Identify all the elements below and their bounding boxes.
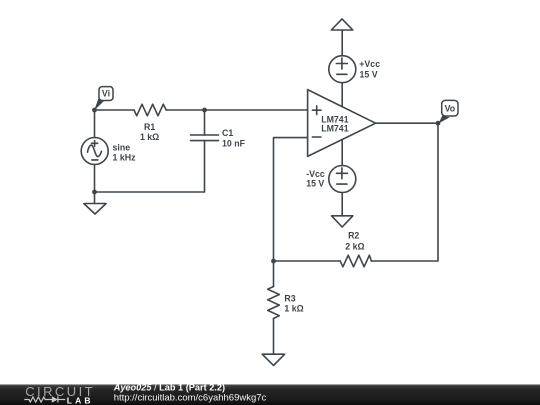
wire feedback node to R3	[273, 261, 275, 287]
svg-text:15 V: 15 V	[306, 179, 324, 189]
V3 minus sign	[337, 183, 347, 185]
svg-text:1 kHz: 1 kHz	[113, 153, 137, 163]
wire Vi node down to V1	[94, 110, 96, 138]
svg-text:http://circuitlab.com/c6yahh69: http://circuitlab.com/c6yahh69wkg7c	[114, 393, 267, 404]
capacitor C1 top lead	[204, 110, 206, 135]
footer bar	[0, 384, 540, 405]
VCC power symbol triangle	[331, 19, 353, 30]
wire R2 left to feedback node	[274, 260, 341, 262]
svg-text:R2: R2	[348, 231, 359, 241]
op-amp plus input symbol	[312, 106, 321, 115]
wire op-amp output to Vo corner	[376, 122, 438, 124]
junction node at V1 bottom / ground	[92, 190, 97, 195]
ground symbol below R3	[262, 354, 285, 365]
svg-text:+Vcc: +Vcc	[359, 59, 380, 69]
svg-text:1 kΩ: 1 kΩ	[284, 303, 303, 313]
wire Vi node to R1	[95, 109, 135, 111]
V3 plus sign	[336, 168, 347, 179]
voltage source V3 -Vcc body	[329, 166, 356, 193]
node flag pointer Vi	[94, 98, 104, 111]
op-amp minus input symbol	[312, 136, 321, 138]
node flag box Vo	[442, 100, 458, 116]
node flag pointer Vo	[439, 116, 450, 124]
svg-text:Vo: Vo	[445, 104, 456, 114]
ground symbol below V1	[84, 204, 106, 215]
wire op-amp inverting input to feedback node	[274, 138, 308, 261]
V2 plus sign	[336, 58, 347, 69]
svg-text:10 nF: 10 nF	[222, 139, 246, 149]
resistor R2	[340, 255, 371, 267]
wire bottom net to C1 bottom	[95, 141, 205, 192]
V2 minus sign	[337, 73, 347, 75]
svg-text:Ayeo025 / Lab 1 (Part 2.2): Ayeo025 / Lab 1 (Part 2.2)	[113, 382, 225, 392]
sine wave symbol inside V1	[88, 145, 102, 156]
svg-text:sine: sine	[113, 143, 131, 153]
wire Vo corner down to R2 right	[371, 123, 438, 261]
junction node at Vi	[92, 108, 97, 113]
svg-text:LM741: LM741	[321, 124, 348, 134]
svg-text:Vi: Vi	[102, 89, 110, 99]
footer logo diode	[52, 396, 58, 402]
capacitor C1 plates	[191, 135, 219, 141]
V1 minus sign	[92, 159, 98, 161]
junction node at Vo	[436, 121, 441, 126]
voltage source V2 +Vcc body	[329, 56, 356, 83]
svg-text:R3: R3	[284, 293, 295, 303]
wire V2 top to VCC symbol	[341, 30, 343, 56]
svg-text:R1: R1	[144, 122, 155, 132]
wire V1 bottom to ground node	[94, 165, 96, 204]
footer logo resistor-diode squiggle	[24, 396, 65, 402]
op-amp U1 triangle	[308, 90, 376, 157]
wire op-amp bottom power pin to V3	[341, 139, 343, 165]
VEE power symbol triangle	[332, 216, 353, 227]
node flag box Vi	[99, 87, 113, 101]
wire R3 bottom to ground	[273, 319, 275, 355]
junction node at C1 top	[202, 108, 207, 113]
V1 plus sign	[92, 141, 98, 147]
svg-text:1 kΩ: 1 kΩ	[140, 132, 159, 142]
wire R1 to op-amp + input (through node C1 top)	[166, 109, 307, 111]
junction node at feedback	[271, 259, 276, 264]
resistor R3	[268, 287, 280, 319]
resistor R1	[134, 104, 166, 116]
voltage source V1 sine body	[81, 138, 108, 165]
svg-text:LAB: LAB	[67, 395, 94, 405]
svg-text:2 kΩ: 2 kΩ	[345, 241, 364, 251]
svg-text:15 V: 15 V	[360, 69, 378, 79]
wire V3 bottom to VEE symbol	[341, 193, 343, 216]
svg-text:C1: C1	[222, 128, 233, 138]
wire op-amp top power pin to V2	[341, 83, 343, 107]
